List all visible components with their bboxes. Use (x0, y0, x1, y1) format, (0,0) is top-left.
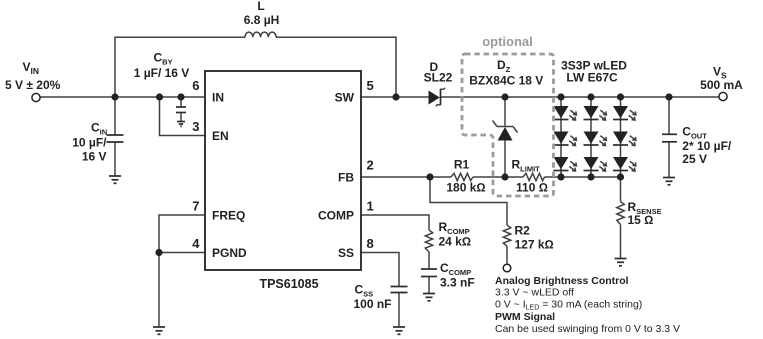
svg-text:7: 7 (192, 199, 199, 214)
svg-text:3.3 V ~ wLED off: 3.3 V ~ wLED off (495, 287, 574, 299)
svg-text:IN: IN (212, 91, 224, 105)
svg-text:4: 4 (192, 236, 200, 251)
svg-text:COMP: COMP (318, 209, 354, 223)
svg-text:8: 8 (367, 236, 374, 251)
svg-text:15 Ω: 15 Ω (628, 213, 654, 227)
svg-text:1 µF/ 16 V: 1 µF/ 16 V (134, 66, 190, 80)
svg-text:110 Ω: 110 Ω (516, 181, 548, 195)
svg-text:SS: SS (338, 246, 354, 260)
svg-text:1: 1 (367, 199, 374, 214)
svg-text:127 kΩ: 127 kΩ (515, 238, 554, 252)
svg-text:5 V ± 20%: 5 V ± 20% (5, 78, 61, 92)
svg-text:PGND: PGND (212, 246, 247, 260)
svg-text:100 nF: 100 nF (354, 297, 392, 311)
svg-text:10 µF/: 10 µF/ (72, 136, 107, 150)
svg-text:EN: EN (212, 129, 229, 143)
svg-text:BZX84C 18 V: BZX84C 18 V (469, 74, 543, 88)
svg-text:R1: R1 (454, 158, 470, 172)
svg-text:Can be used swinging from 0 V: Can be used swinging from 0 V to 3.3 V (495, 323, 680, 335)
svg-text:5: 5 (367, 78, 374, 93)
svg-text:R2: R2 (515, 224, 531, 238)
svg-text:TPS61085: TPS61085 (259, 277, 318, 291)
svg-text:optional: optional (482, 34, 533, 49)
svg-text:2: 2 (367, 158, 374, 173)
svg-text:180 kΩ: 180 kΩ (446, 181, 485, 195)
svg-text:FB: FB (338, 171, 354, 185)
svg-text:6: 6 (192, 78, 199, 93)
svg-text:SL22: SL22 (424, 71, 453, 85)
svg-text:SW: SW (335, 91, 355, 105)
svg-text:3.3 nF: 3.3 nF (440, 276, 475, 290)
svg-text:Analog Brightness Control: Analog Brightness Control (495, 275, 629, 287)
svg-text:16 V: 16 V (82, 150, 107, 164)
svg-text:LW E67C: LW E67C (566, 71, 618, 85)
svg-text:24 kΩ: 24 kΩ (439, 234, 472, 248)
svg-text:L: L (257, 0, 264, 13)
svg-text:500 mA: 500 mA (700, 78, 743, 92)
svg-text:3: 3 (192, 119, 199, 134)
svg-text:FREQ: FREQ (212, 209, 245, 223)
svg-text:25 V: 25 V (682, 152, 707, 166)
svg-text:0 V ~ ILED = 30 mA (each strin: 0 V ~ ILED = 30 mA (each string) (495, 298, 642, 311)
svg-text:6.8 µH: 6.8 µH (244, 13, 280, 27)
svg-text:PWM Signal: PWM Signal (495, 311, 555, 323)
